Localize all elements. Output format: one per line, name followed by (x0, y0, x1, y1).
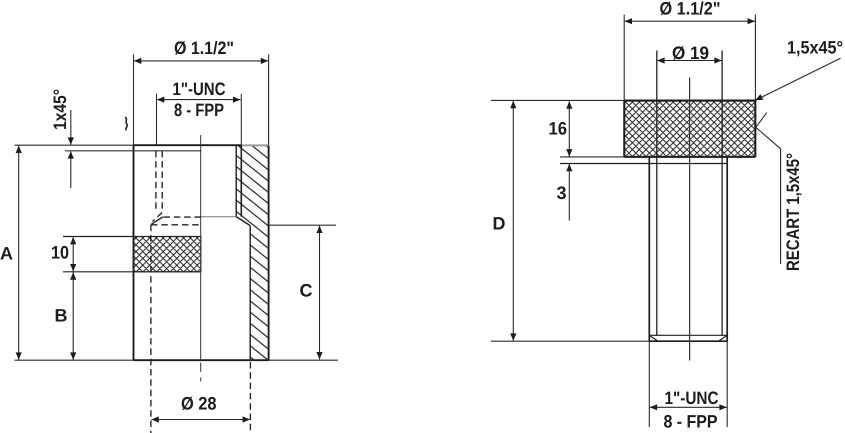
dimension Ø 28 left view (151, 419, 250, 421)
right view head bottom extension (560, 156, 624, 158)
left view inner bore edges (151, 145, 250, 360)
left view bottom face extensions (15, 359, 134, 361)
left view bore bottom edge (201, 216, 237, 218)
left view knurl band (134, 237, 201, 272)
dimension D right view (491, 100, 649, 341)
left view centerline (200, 135, 202, 382)
left view top face over hatch (light) (242, 144, 269, 146)
right view neck line (560, 163, 727, 165)
dimension 16 right view (568, 101, 570, 156)
leader RECART 1,5x45 (756, 113, 781, 264)
right view centerline (689, 78, 691, 361)
left view section hatch right wall (236, 145, 268, 360)
dimension Ø 1.1/2" right view (624, 15, 755, 101)
left view top chamfer line (65, 150, 201, 152)
dimension 1x45 chamfer left view (70, 110, 72, 188)
dimension A left view (18, 146, 20, 360)
left view hidden thread lines (151, 151, 201, 225)
dimension B left view (72, 272, 74, 360)
dimension C left view (269, 225, 336, 359)
left view thread major line / 1UNC right extension (240, 94, 242, 145)
dimension 1"-UNC 8-FPP left view (157, 94, 241, 145)
left view part outline (134, 145, 269, 360)
right view head outline (624, 100, 755, 156)
leader 1,5x45 top right (755, 58, 841, 100)
dimension Ø 1.1/2" left view (134, 54, 269, 145)
left view knurl band edge lines with 10-dim extensions (63, 237, 201, 272)
dimension 10 left view (72, 237, 74, 271)
right view shank outline (649, 157, 727, 341)
right view thread minor lines (657, 51, 722, 336)
squiggle break mark (125, 117, 127, 130)
left view hidden bore line Ø28 right extension (249, 362, 251, 433)
left view hidden bore line Ø28 left (150, 225, 152, 433)
dimension Ø 19 right view (657, 60, 722, 62)
right view bottom thread runout and chamfers (649, 335, 727, 341)
left view top face extension to A dim (15, 144, 134, 146)
dimension 1"-UNC 8-FPP right view (650, 406, 727, 408)
right view knurl head (625, 101, 755, 156)
right view shank extensions below (649, 341, 727, 427)
dimension 3 right view (568, 164, 570, 221)
